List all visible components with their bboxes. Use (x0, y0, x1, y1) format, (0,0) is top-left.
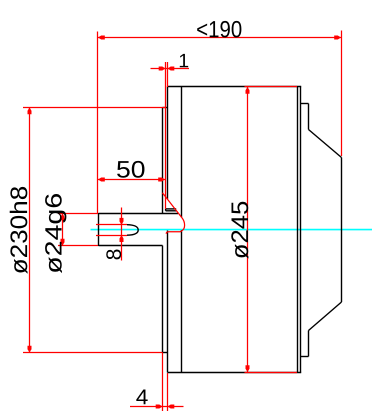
dim 1 line (151, 68, 190, 70)
dim 8 line (121, 208, 123, 261)
flange bottom shelf (163, 352, 168, 354)
dim dia24g6 bottom extension line (58, 245, 98, 247)
dim <190 left extension line (97, 32, 99, 214)
step ring top edge (301, 103, 309, 105)
body bottom edge (168, 372, 302, 374)
dim 50 line (98, 179, 166, 181)
shaft bottom edge (99, 245, 163, 247)
dim dia245 top extension overlay (245, 86, 298, 88)
arrow dia230 top (28, 108, 32, 115)
flange top edge (163, 107, 168, 109)
shaft top edge (99, 213, 179, 215)
dim 8 top extension line (keyway top) (96, 224, 127, 226)
dim dia24g6 line (62, 214, 64, 246)
arrow dia24 bottom (61, 239, 65, 246)
arrow 50 left (98, 178, 105, 182)
bell front face (upper) (167, 87, 169, 199)
dim dia24g6 top extension line (58, 213, 98, 215)
dim 1 right extension line (167, 62, 169, 87)
text <190 (197, 21, 241, 37)
dim 8 bottom extension line (keyway bottom) (96, 235, 127, 237)
text dia24g6 (rotated) (45, 194, 66, 273)
arrow 1 left (159, 67, 166, 71)
text dia230h8 (rotated) (10, 187, 28, 274)
shaft end face (98, 213, 100, 246)
dim dia245 line (247, 87, 249, 372)
arrow 190 left (98, 36, 105, 40)
keyway slot rounded end (127, 225, 138, 236)
dim 4 left extension line (162, 353, 164, 412)
dim 4 line (130, 406, 184, 408)
text 1 (180, 54, 188, 67)
bearing detail left edge (165, 209, 167, 211)
dim dia230h8 bottom extension line (23, 352, 163, 354)
arrow 8 top (120, 218, 124, 225)
arrow dia230 bottom (28, 346, 32, 353)
arrow 1 right (168, 67, 175, 71)
dim 4 right extension line (167, 373, 169, 411)
body back face line 2 (300, 87, 302, 373)
body top edge (168, 86, 302, 88)
text 50 (117, 161, 144, 178)
cone back face (341, 158, 343, 303)
bell-body joint (lower) (181, 230, 183, 373)
arrowheads (28, 36, 342, 409)
arrow 50 right (158, 178, 165, 182)
dim <190 line (98, 37, 342, 39)
arrow dia245 top (246, 87, 250, 94)
bearing detail upper line (166, 208, 177, 210)
cone top silhouette (309, 130, 342, 158)
break line spline (red) (162, 193, 184, 234)
arrow 8 bottom (120, 235, 124, 242)
step ring bottom edge (301, 356, 309, 358)
arrow dia24 top (61, 214, 65, 221)
arrow 190 right (334, 36, 341, 40)
text 8 (rotated) (106, 250, 121, 260)
bell-body joint (upper) (181, 87, 183, 218)
dim dia230h8 line (29, 108, 31, 353)
bell front face (lower) (167, 231, 169, 373)
bearing detail lower line (166, 210, 177, 212)
dim dia245 bottom extension overlay (245, 372, 298, 374)
flange front face (lower) (162, 246, 164, 353)
text 4 (136, 390, 147, 405)
centerline (cyan axis) (91, 229, 372, 231)
step ring back face (upper) (308, 104, 310, 130)
dim 1 left extension line (165, 62, 167, 209)
flange front face (upper) (162, 108, 164, 214)
arrow 4 left (156, 405, 163, 409)
text dia245 (rotated) (231, 202, 248, 259)
step ring back face (lower) (308, 331, 310, 357)
arrow 4 right (168, 405, 175, 409)
body back face line 1 (297, 87, 299, 373)
dim dia230h8 top extension line (23, 107, 166, 109)
cone bottom silhouette (309, 302, 342, 331)
arrow dia245 bottom (246, 365, 250, 372)
dim <190 right extension line (341, 31, 343, 157)
